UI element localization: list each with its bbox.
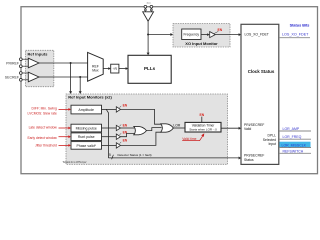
svg-text:Detector Status (1 = fault): Detector Status (1 = fault): [118, 153, 152, 157]
svg-text:LOR_FREQ: LOR_FREQ: [283, 135, 302, 139]
svg-text:5: 5: [109, 153, 111, 157]
svg-text:Valid: Valid: [244, 127, 251, 131]
svg-text:EN: EN: [123, 138, 128, 142]
svg-text:Ref Input Monitors (x2): Ref Input Monitors (x2): [68, 94, 112, 99]
svg-text:Phase valid*: Phase valid*: [76, 144, 96, 148]
svg-text:LOS_XO_FDET: LOS_XO_FDET: [245, 32, 269, 36]
svg-text:LOS_XO_FDET: LOS_XO_FDET: [282, 33, 309, 37]
svg-text:Clock Status: Clock Status: [248, 69, 275, 74]
svg-text:EN: EN: [123, 131, 128, 135]
svg-text:LVCMOS: Slew rate: LVCMOS: Slew rate: [28, 111, 57, 115]
svg-text:Runt pulse: Runt pulse: [78, 135, 95, 139]
svg-text:÷R: ÷R: [113, 67, 118, 71]
svg-text:SECREF: SECREF: [5, 75, 19, 79]
svg-text:Missing pulse: Missing pulse: [76, 126, 97, 130]
svg-text:XO Input Monitor: XO Input Monitor: [185, 41, 218, 46]
svg-text:Starts when LOR→0: Starts when LOR→0: [189, 128, 217, 132]
svg-text:Early detect window: Early detect window: [27, 136, 57, 140]
svg-text:Ref Inputs: Ref Inputs: [28, 51, 48, 56]
svg-text:EN: EN: [199, 113, 204, 117]
svg-text:Mux: Mux: [92, 69, 99, 73]
svg-text:Late detect window: Late detect window: [29, 126, 58, 130]
svg-text:Jitter threshold: Jitter threshold: [35, 144, 57, 148]
svg-text:EN: EN: [123, 104, 128, 108]
svg-text:LOR_AMP: LOR_AMP: [283, 127, 300, 131]
svg-text:Input: Input: [268, 142, 276, 146]
svg-text:LOR: LOR: [173, 124, 181, 128]
svg-text:PRIREF: PRIREF: [6, 62, 19, 66]
svg-text:EN: EN: [123, 123, 128, 127]
svg-text:REFSWITCH: REFSWITCH: [283, 149, 304, 153]
svg-text:Status: Status: [244, 158, 254, 162]
svg-text:DIFF: Min. Swing: DIFF: Min. Swing: [32, 107, 57, 111]
svg-text:PLLs: PLLs: [144, 66, 156, 71]
svg-text:Status Bits: Status Bits: [290, 23, 310, 27]
svg-text:LOR_MISSCLK: LOR_MISSCLK: [282, 143, 307, 147]
svg-text:Frequency: Frequency: [184, 33, 200, 37]
svg-text:EN: EN: [218, 28, 223, 32]
svg-text:*Enable for 1-PPS input: *Enable for 1-PPS input: [63, 161, 87, 164]
svg-text:Amplitude: Amplitude: [78, 108, 94, 112]
